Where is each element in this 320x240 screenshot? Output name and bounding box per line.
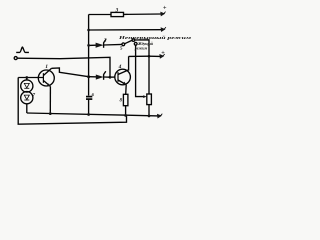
resistor R9 [147, 94, 152, 105]
node: junction dot at 149,56.2 [148, 55, 151, 58]
node: junction dot at 88.6,76.7 [87, 75, 90, 78]
switch S5 top contact [132, 39, 135, 42]
wire: lower contact vertical down [136, 45, 145, 96]
wire: Q4 base lead [110, 76, 115, 78]
potentiometer wiper arrow [143, 95, 147, 98]
wire: x149 vertical down to pot [148, 56, 150, 94]
capacitor C6 [86, 96, 92, 98]
wire: Q1 emitter lead to bus [49, 86, 51, 114]
wire: left vertical return [18, 78, 126, 125]
svg-text:+: + [161, 50, 165, 56]
wire: diode line y=45 [89, 44, 122, 45]
wire: Q4 collector rail [129, 56, 149, 70]
transistor Q1 base bar [42, 73, 44, 83]
switch S5 pole [122, 43, 125, 46]
wire: top rail right segment to terminal [124, 13, 162, 15]
transistor Q1 circle [38, 70, 54, 86]
node: bus dot Q1 emitter [49, 112, 52, 115]
terminal arrow + output [159, 54, 164, 59]
wire: Q4 emitter lead down [125, 85, 128, 95]
wire: top contact to corner [135, 40, 149, 56]
svg-text:4: 4 [118, 64, 122, 70]
wire: bottom bus [27, 113, 159, 116]
transistor Q4 emitter [118, 80, 126, 85]
diode circle V7b [21, 92, 33, 104]
wire: Q1 collector step to Q4 base line [52, 68, 89, 77]
wire: diode D1 line [89, 76, 110, 79]
transistor Q4 collector [118, 70, 128, 75]
diode D2 [96, 43, 104, 48]
diode circle V7a [21, 80, 33, 92]
svg-text:5: 5 [120, 46, 123, 51]
svg-text:2: 2 [103, 39, 107, 44]
wire: Q1 base lead [18, 77, 43, 79]
svg-text:режим: режим [134, 45, 147, 50]
transistor Q4 base bar [117, 72, 119, 82]
svg-text:1: 1 [45, 64, 48, 70]
wire: chain bottom lead [26, 104, 28, 113]
diode D1 [96, 75, 104, 80]
terminal arrow second rail [161, 27, 166, 32]
wire: second rail y=30 [89, 29, 161, 31]
transistor Q1 emitter arrow [47, 83, 51, 86]
transistor Q1 emitter [43, 81, 50, 87]
input terminal [14, 57, 17, 60]
svg-text:7: 7 [33, 94, 36, 99]
wire: R8 bottom lead to bus [125, 106, 127, 116]
node: junction dot at diode line [87, 44, 90, 47]
svg-text:8: 8 [120, 99, 123, 104]
pulse waveform icon [16, 47, 29, 52]
switch S5 lever [125, 40, 133, 43]
node: bus dot R9 lead [148, 115, 151, 118]
svg-text:6: 6 [92, 92, 95, 97]
node: junction dot at diode chain top [25, 76, 28, 79]
wire: R9 bottom lead to bus [148, 105, 150, 116]
switch S5 lower contact [134, 42, 137, 45]
transistor Q1 collector [43, 68, 51, 75]
transistor Q4 circle [115, 69, 131, 85]
terminal arrow top right (+) [160, 12, 165, 17]
wire: +supply top rail left segment [89, 14, 111, 16]
node: junction dot at rail2 [87, 29, 90, 32]
node: bus dot cap lead [87, 113, 90, 116]
resistor R3 [111, 12, 124, 16]
terminal arrow bottom bus [157, 114, 162, 119]
transistor Q4 emitter arrow [123, 82, 126, 85]
svg-text:3: 3 [115, 8, 119, 14]
svg-text:Непрерывный режим: Непрерывный режим [117, 35, 191, 40]
wire: chain top lead [26, 78, 28, 81]
resistor R8 [123, 94, 128, 105]
node: junction dot Q4 base node [109, 76, 112, 79]
svg-text:+: + [163, 6, 167, 12]
wire: central vertical bus x=88.6 [88, 15, 90, 115]
wire: to + output terminal [149, 55, 160, 57]
node: bus dot R8 lead [124, 114, 127, 117]
wire: input line y58 [17, 57, 110, 77]
